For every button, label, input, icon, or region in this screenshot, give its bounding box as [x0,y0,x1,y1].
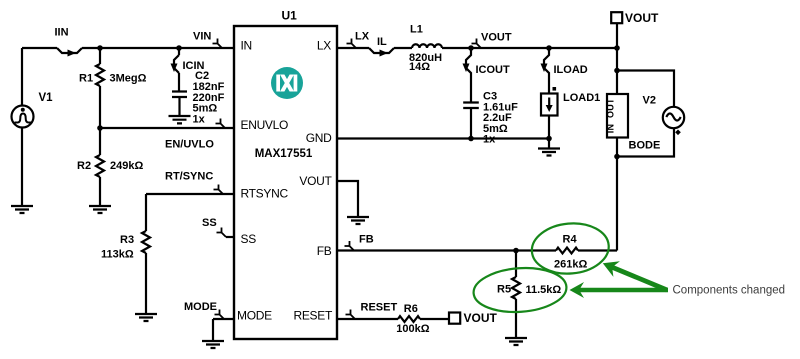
svg-text:R6: R6 [404,303,418,315]
svg-text:VIN: VIN [193,31,211,43]
svg-text:VOUT: VOUT [625,11,659,25]
node bode top [614,68,620,74]
wire: C3 to gnd net [470,108,472,139]
probe RT/SYNC [214,185,224,195]
svg-text:ENUVLO: ENUVLO [241,118,289,132]
inductor L1 [412,44,442,48]
probe VOUT [472,39,482,49]
source V2 [663,107,684,128]
annotation arrow to R4 [603,261,668,292]
wire: R3 top [145,194,147,231]
wire: EN/UVLO net [100,127,234,129]
annotation ellipse around R5 [472,265,568,315]
svg-text:113kΩ: 113kΩ [101,249,134,261]
svg-text:IN OUT: IN OUT [606,98,616,133]
node C3 bottom [468,136,474,142]
wire: V2 bottom branch [617,129,674,157]
ground under C2 [169,116,191,123]
svg-text:14Ω: 14Ω [409,61,430,73]
resistor R1 [96,64,104,86]
wire: R6 to terminal [420,318,449,320]
capacitor C3 [463,103,479,109]
svg-text:IL: IL [377,36,387,48]
wire: GND net [337,137,549,139]
wire: L1 to VOUT corner [442,47,618,49]
wire: ICIN to C2 [178,73,180,92]
probe VIN [213,39,223,49]
svg-text:VOUT: VOUT [464,311,498,325]
svg-text:RT/SYNC: RT/SYNC [165,171,213,183]
probe FB [345,241,355,251]
svg-text:V1: V1 [39,92,54,104]
svg-text:3MegΩ: 3MegΩ [110,73,147,85]
wire: FB net [337,249,556,251]
wire: terminal down to main [616,23,618,70]
svg-text:R3: R3 [120,234,134,246]
probe MODE [215,310,225,320]
capacitor C2 [172,92,187,98]
wire: R1 top stub [99,48,101,64]
svg-text:SS: SS [202,217,217,229]
ground under VOUT pin [347,217,369,224]
svg-text:ILOAD: ILOAD [554,64,588,76]
resistor R4 [556,248,578,254]
ground under R3 [135,314,157,321]
svg-text:LX: LX [355,31,370,43]
svg-text:GND: GND [306,131,332,145]
node R1/R2/EN junction [97,125,103,131]
svg-text:R2: R2 [77,160,91,172]
svg-text:ICOUT: ICOUT [476,64,511,76]
current probe ILOAD [544,48,549,94]
op-amp U1 MAX17551 body [234,26,337,339]
svg-text:FB: FB [317,244,332,258]
probe EN/UVLO [216,119,226,129]
wire: R1 bottom to EN node [99,86,101,128]
svg-text:RESET: RESET [361,302,398,314]
ground under R5 [505,338,527,345]
node at ICIN top [176,45,182,51]
svg-text:RTSYNC: RTSYNC [241,187,289,201]
node at R1 top [97,45,103,51]
wire: RTSYNC net [146,193,234,195]
wire: IIN probe to IN pin [82,47,234,49]
probe LX [347,39,357,49]
bode IN/OUT box [607,94,628,138]
node at C3 branch [468,45,474,51]
svg-text:1x: 1x [193,114,206,126]
probe SS [217,228,227,238]
svg-text:SS: SS [241,232,257,246]
wire: R3 bottom [145,253,147,314]
svg-text:Components changed: Components changed [673,285,786,297]
svg-text:R1: R1 [79,73,93,85]
svg-text:BODE: BODE [629,140,661,152]
wire: bode box bottom [616,138,618,251]
current probe IIN [57,48,82,53]
svg-text:LOAD1: LOAD1 [563,92,600,104]
svg-text:VOUT: VOUT [299,174,332,188]
voltage source V1 [12,106,34,128]
svg-text:R5: R5 [497,284,511,296]
resistor R6 [398,316,420,322]
svg-text:R4: R4 [563,234,578,246]
node main/terminal [614,45,620,51]
wire: R4 to bode branch [578,249,617,251]
svg-text:MODE: MODE [184,301,217,313]
wire: SS stub [226,236,234,238]
node LOAD1 bottom [546,136,552,142]
resistor R3 [142,231,150,253]
ground under V1 [11,206,33,213]
wire: C2 to ground [178,97,180,116]
wire: bode box top stub [616,71,618,95]
node bode bottom [614,154,620,160]
wire: RESET net [337,318,398,320]
current probe ICOUT [466,48,471,103]
terminal VOUT (bottom) [449,313,460,324]
wire: MODE to ground [212,319,214,341]
svg-text:V2: V2 [643,95,656,107]
svg-text:FB: FB [359,234,374,246]
node at ILOAD branch [546,45,552,51]
wire: V1 top to IIN probe [22,47,57,49]
annotation ellipse around R4 [530,220,611,277]
svg-text:VOUT: VOUT [481,32,512,44]
svg-text:261kΩ: 261kΩ [554,259,587,271]
wire: bode top branch [617,71,674,108]
wire: LX to IL probe [337,47,369,49]
wire: MODE net [213,318,234,320]
wire: VOUT pin to ground [337,181,358,217]
svg-text:L1: L1 [410,24,423,36]
current probe ICIN [174,55,179,73]
resistor R2 [96,128,104,206]
current probe IL [369,48,394,53]
wire: V1 stem top [21,48,23,106]
svg-text:100kΩ: 100kΩ [396,323,429,335]
node FB/R4/R5 [513,248,519,254]
svg-text:EN/UVLO: EN/UVLO [165,139,214,151]
svg-text:MAX17551: MAX17551 [255,148,313,160]
wire: IL to L1 [394,47,412,49]
svg-text:IN: IN [241,39,252,53]
svg-text:MODE: MODE [237,309,272,323]
wire: ICIN stub [178,48,180,55]
terminal VOUT (top right) [611,12,622,23]
wire: LOAD1 to ground [548,116,550,149]
svg-text:IIN: IIN [55,27,69,39]
svg-text:1x: 1x [483,134,496,146]
svg-text:U1: U1 [282,9,298,23]
svg-text:11.5kΩ: 11.5kΩ [526,284,562,296]
svg-text:RESET: RESET [293,309,332,323]
current source LOAD1 [541,94,558,116]
probe RESET [346,310,356,320]
ground under MODE [202,341,224,348]
svg-text:249kΩ: 249kΩ [110,160,143,172]
wire: V1 stem bottom [21,128,23,207]
svg-text:LX: LX [317,39,331,53]
ground under LOAD1 [538,149,560,156]
resistor R5 [512,251,520,339]
ground under R2 [89,206,111,213]
Maxim logo [271,67,303,99]
annotation arrow to R5 [570,282,669,298]
